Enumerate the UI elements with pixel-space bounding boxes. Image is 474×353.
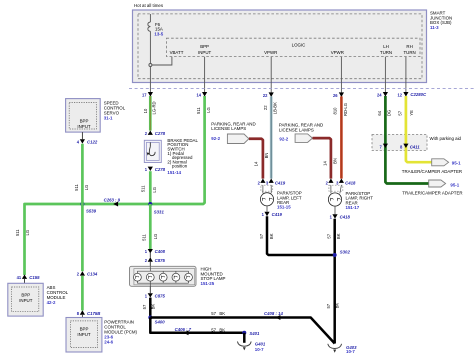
svg-text:151-25: 151-25 bbox=[201, 281, 215, 286]
svg-text:INPUT: INPUT bbox=[77, 332, 90, 337]
splice S331 bbox=[148, 202, 152, 206]
svg-text:92-2: 92-2 bbox=[211, 136, 220, 141]
svg-text:C278: C278 bbox=[155, 131, 166, 136]
wire: DG from pin 24 to trailer takeout bbox=[385, 96, 428, 184]
svg-text:11-3: 11-3 bbox=[430, 25, 439, 30]
svg-text:LG: LG bbox=[84, 185, 89, 191]
svg-text:C134: C134 bbox=[87, 272, 98, 277]
svg-text:G401: G401 bbox=[255, 341, 266, 346]
wire: stub into ABS module bbox=[24, 279, 26, 283]
connector C418 pin 1 bbox=[334, 206, 336, 214]
svg-text:TRAILER/CAMPER ADAPTER: TRAILER/CAMPER ADAPTER bbox=[402, 191, 462, 196]
splice S400 bbox=[148, 316, 152, 320]
wire: YE from C2280C pin 12 to trailer takeout bbox=[406, 96, 432, 162]
svg-text:TRAILER/CAMPER ADAPTER: TRAILER/CAMPER ADAPTER bbox=[402, 169, 462, 174]
svg-text:LH: LH bbox=[383, 44, 389, 49]
brake pedal position switch box bbox=[144, 140, 161, 162]
svg-text:LG: LG bbox=[153, 234, 158, 240]
svg-text:BK: BK bbox=[219, 327, 225, 332]
connector body dashes into left lamp bbox=[261, 185, 273, 191]
svg-text:10-7: 10-7 bbox=[346, 349, 355, 353]
svg-text:C263 : 9: C263 : 9 bbox=[104, 197, 121, 202]
wire: BK from S400 down and right to S401 bbox=[150, 318, 244, 333]
svg-text:64: 64 bbox=[377, 110, 382, 115]
svg-text:24: 24 bbox=[377, 92, 382, 97]
svg-text:BPP: BPP bbox=[80, 327, 89, 332]
wire: LG from brake switch down to S331 bbox=[149, 171, 152, 204]
svg-text:S401: S401 bbox=[249, 331, 260, 336]
svg-text:22: 22 bbox=[263, 93, 268, 98]
svg-text:LG: LG bbox=[206, 107, 211, 113]
ground G401 bbox=[243, 333, 246, 343]
svg-text:BPP: BPP bbox=[80, 118, 89, 123]
harness takeout arrow left bbox=[227, 134, 249, 144]
svg-text:57: 57 bbox=[211, 327, 216, 332]
svg-text:17: 17 bbox=[142, 92, 147, 97]
connector pin arrows leaving SJB bbox=[148, 92, 409, 97]
park/stop lamp left rear bbox=[260, 193, 273, 206]
svg-text:With parking aid: With parking aid bbox=[430, 136, 462, 141]
wire: LG from pin 14 down to bus corner bbox=[25, 96, 205, 275]
svg-text:151-15: 151-15 bbox=[277, 205, 291, 210]
SJB logic band box bbox=[167, 38, 421, 56]
svg-text:511: 511 bbox=[142, 233, 147, 240]
wire: stub from speed servo to C122 bbox=[81, 132, 83, 139]
svg-text:RD-LG: RD-LG bbox=[343, 103, 348, 116]
svg-text:95-1: 95-1 bbox=[452, 161, 461, 166]
splice S302 bbox=[333, 253, 337, 257]
svg-text:LG: LG bbox=[152, 187, 157, 193]
svg-text:14: 14 bbox=[322, 161, 327, 166]
svg-text:C2280C: C2280C bbox=[410, 92, 427, 97]
connector C278 pin 1 bbox=[148, 167, 153, 171]
svg-text:BPP: BPP bbox=[200, 44, 209, 49]
wire: pigtail into HMSL bbox=[149, 262, 151, 267]
svg-text:C408 : 14: C408 : 14 bbox=[264, 311, 283, 316]
wire: LG-RD from pin 17 to brake pedal switch bbox=[149, 96, 152, 131]
svg-text:810: 810 bbox=[333, 107, 338, 115]
switch symbol inside brake pedal switch bbox=[149, 142, 155, 155]
connector C155 pin 41 bbox=[22, 275, 27, 279]
svg-text:57: 57 bbox=[259, 233, 264, 238]
svg-text:14: 14 bbox=[196, 92, 201, 97]
svg-text:C155: C155 bbox=[29, 275, 40, 280]
powertrain control module box bbox=[66, 318, 102, 353]
svg-text:C406 : 7: C406 : 7 bbox=[175, 327, 192, 332]
wire: BN from takeout to C419 pin 2 bbox=[249, 139, 263, 179]
svg-text:C418: C418 bbox=[345, 180, 356, 185]
wire: BK from C875 to S400 bbox=[149, 298, 152, 318]
connector C278 pin 2 bbox=[148, 131, 153, 135]
connector C175B pin 8 bbox=[80, 310, 85, 314]
trailer/camper adapter takeout lower bbox=[429, 180, 446, 187]
wire: fuse feed inside SJB bbox=[150, 14, 172, 92]
HMSL internal led bus wiring bbox=[137, 266, 188, 286]
svg-text:LICENSE LAMPS: LICENSE LAMPS bbox=[279, 127, 314, 132]
svg-text:42-2: 42-2 bbox=[47, 300, 56, 305]
with parking aid dashed box bbox=[372, 135, 427, 151]
svg-text:C122: C122 bbox=[87, 139, 98, 144]
svg-text:LG-RD: LG-RD bbox=[151, 101, 156, 114]
svg-text:BK: BK bbox=[335, 303, 340, 309]
svg-text:511: 511 bbox=[141, 185, 146, 192]
wire: LB-BK from pin 22 to C419 pin 3 bbox=[270, 96, 273, 178]
svg-text:INPUT: INPUT bbox=[77, 124, 90, 129]
ground G403 bbox=[328, 344, 342, 349]
speed control servo box bbox=[66, 99, 101, 133]
svg-text:RH: RH bbox=[406, 44, 412, 49]
svg-text:31-1: 31-1 bbox=[104, 115, 113, 120]
wire: BK from left lamp to S302 bbox=[267, 216, 335, 255]
connector C419 pin 1 bbox=[266, 206, 268, 212]
svg-text:151-14: 151-14 bbox=[167, 170, 181, 175]
svg-text:41: 41 bbox=[17, 275, 22, 280]
svg-text:position: position bbox=[172, 164, 188, 169]
HMSL lamp elements bbox=[134, 273, 193, 281]
svg-text:C419: C419 bbox=[272, 212, 283, 217]
svg-text:C419: C419 bbox=[275, 180, 286, 185]
svg-text:BK: BK bbox=[269, 233, 274, 239]
svg-text:22: 22 bbox=[263, 105, 268, 110]
svg-text:LB-BK: LB-BK bbox=[272, 102, 277, 114]
wire: LG from C122 down through S539 to C134 bbox=[81, 144, 84, 271]
wire: LG from S331 down to C408 bbox=[149, 204, 152, 249]
connector C411 pins 7 and 8 bbox=[383, 144, 388, 148]
svg-text:10-7: 10-7 bbox=[255, 347, 264, 352]
connector C408 pin 1 bbox=[148, 249, 153, 253]
wire: stub into PCM bbox=[81, 315, 83, 318]
svg-text:C175B: C175B bbox=[87, 311, 100, 316]
splice S401 bbox=[242, 331, 246, 335]
svg-text:BK: BK bbox=[219, 311, 225, 316]
park/stop lamp right rear bbox=[328, 193, 341, 206]
SJB inner dashed border bbox=[138, 14, 422, 79]
svg-text:DG: DG bbox=[386, 110, 391, 116]
svg-text:C875: C875 bbox=[155, 293, 166, 298]
svg-text:24-6: 24-6 bbox=[104, 340, 113, 345]
svg-text:511: 511 bbox=[74, 183, 79, 190]
svg-text:BN: BN bbox=[332, 158, 337, 164]
svg-text:INPUT: INPUT bbox=[19, 298, 32, 303]
svg-text:LG: LG bbox=[25, 230, 30, 236]
svg-text:TURN: TURN bbox=[403, 50, 415, 55]
connector C875 pin 1 below HMSL bbox=[149, 286, 151, 293]
svg-text:S539: S539 bbox=[86, 209, 97, 214]
svg-text:VPWR: VPWR bbox=[331, 50, 344, 55]
svg-text:TURN: TURN bbox=[380, 50, 392, 55]
svg-text:13-5: 13-5 bbox=[154, 31, 163, 36]
svg-text:BPP: BPP bbox=[21, 292, 30, 297]
wire: LG from C134 to C175B bbox=[81, 276, 84, 311]
wire: BK from right lamp down to G403 bbox=[333, 219, 336, 344]
junction node inside SJB bbox=[149, 64, 152, 67]
svg-text:Hot at all times: Hot at all times bbox=[134, 3, 164, 8]
svg-text:LICENSE LAMPS: LICENSE LAMPS bbox=[211, 126, 246, 131]
dashed takeout separator line bbox=[129, 88, 474, 90]
svg-text:YE: YE bbox=[409, 110, 414, 116]
trailer/camper adapter takeout upper bbox=[432, 159, 449, 166]
svg-text:C278: C278 bbox=[155, 167, 166, 172]
connector C419 pins 2 and 3 bbox=[260, 179, 265, 183]
inline connector C263 : 9 arrow on bus bbox=[113, 202, 118, 207]
svg-text:C418: C418 bbox=[340, 214, 351, 219]
wire: BK from S400 right then diagonal to G403 bbox=[150, 318, 334, 344]
svg-text:S400: S400 bbox=[155, 319, 166, 324]
svg-text:BK: BK bbox=[150, 304, 155, 310]
splice S539 bbox=[80, 202, 84, 206]
svg-text:57: 57 bbox=[142, 304, 147, 309]
connector C418 pins 2 and 3 bbox=[328, 179, 333, 183]
svg-text:C408: C408 bbox=[155, 249, 166, 254]
fuse F6 symbol bbox=[148, 22, 151, 31]
connector body dashes into right lamp bbox=[329, 185, 343, 191]
svg-text:511: 511 bbox=[15, 229, 20, 236]
svg-text:C411: C411 bbox=[410, 144, 421, 149]
svg-text:92-2: 92-2 bbox=[279, 136, 288, 141]
svg-text:INPUT: INPUT bbox=[198, 50, 211, 55]
connector C134 pin 2 bbox=[80, 271, 85, 275]
svg-text:LOGIC: LOGIC bbox=[292, 42, 306, 47]
svg-text:10: 10 bbox=[143, 108, 148, 113]
svg-text:S302: S302 bbox=[340, 249, 351, 254]
svg-text:511: 511 bbox=[196, 107, 201, 114]
wire: BN from takeout to C418 pin 2 bbox=[313, 138, 331, 178]
svg-text:VPWR: VPWR bbox=[264, 50, 277, 55]
wire: RD-LG from pin 26 to C418 pin 3 bbox=[340, 96, 343, 178]
connector C875 pin 2 bbox=[148, 257, 153, 261]
high mounted stop lamp box bbox=[130, 266, 197, 286]
svg-text:57: 57 bbox=[326, 303, 331, 308]
svg-text:BK: BK bbox=[336, 233, 341, 239]
wire: stub between C408 and C875 bbox=[149, 252, 151, 257]
svg-text:BN: BN bbox=[264, 153, 269, 159]
svg-text:VBATT: VBATT bbox=[170, 50, 184, 55]
svg-text:57: 57 bbox=[327, 233, 332, 238]
ABS control module box bbox=[8, 283, 43, 316]
svg-text:C875: C875 bbox=[155, 258, 166, 263]
connector C122 pin 4 bbox=[80, 139, 85, 143]
svg-text:12: 12 bbox=[398, 92, 403, 97]
svg-text:57: 57 bbox=[398, 110, 403, 115]
svg-text:26: 26 bbox=[333, 93, 338, 98]
svg-text:S331: S331 bbox=[154, 210, 165, 215]
harness takeout arrow right bbox=[295, 134, 312, 143]
svg-text:151-17: 151-17 bbox=[346, 205, 360, 210]
wires: SJB internal drops from logic band bbox=[205, 57, 406, 93]
svg-text:95-1: 95-1 bbox=[450, 182, 459, 187]
svg-text:14: 14 bbox=[254, 161, 259, 166]
smart junction box SJB outer box bbox=[133, 10, 427, 83]
svg-text:57: 57 bbox=[211, 311, 216, 316]
